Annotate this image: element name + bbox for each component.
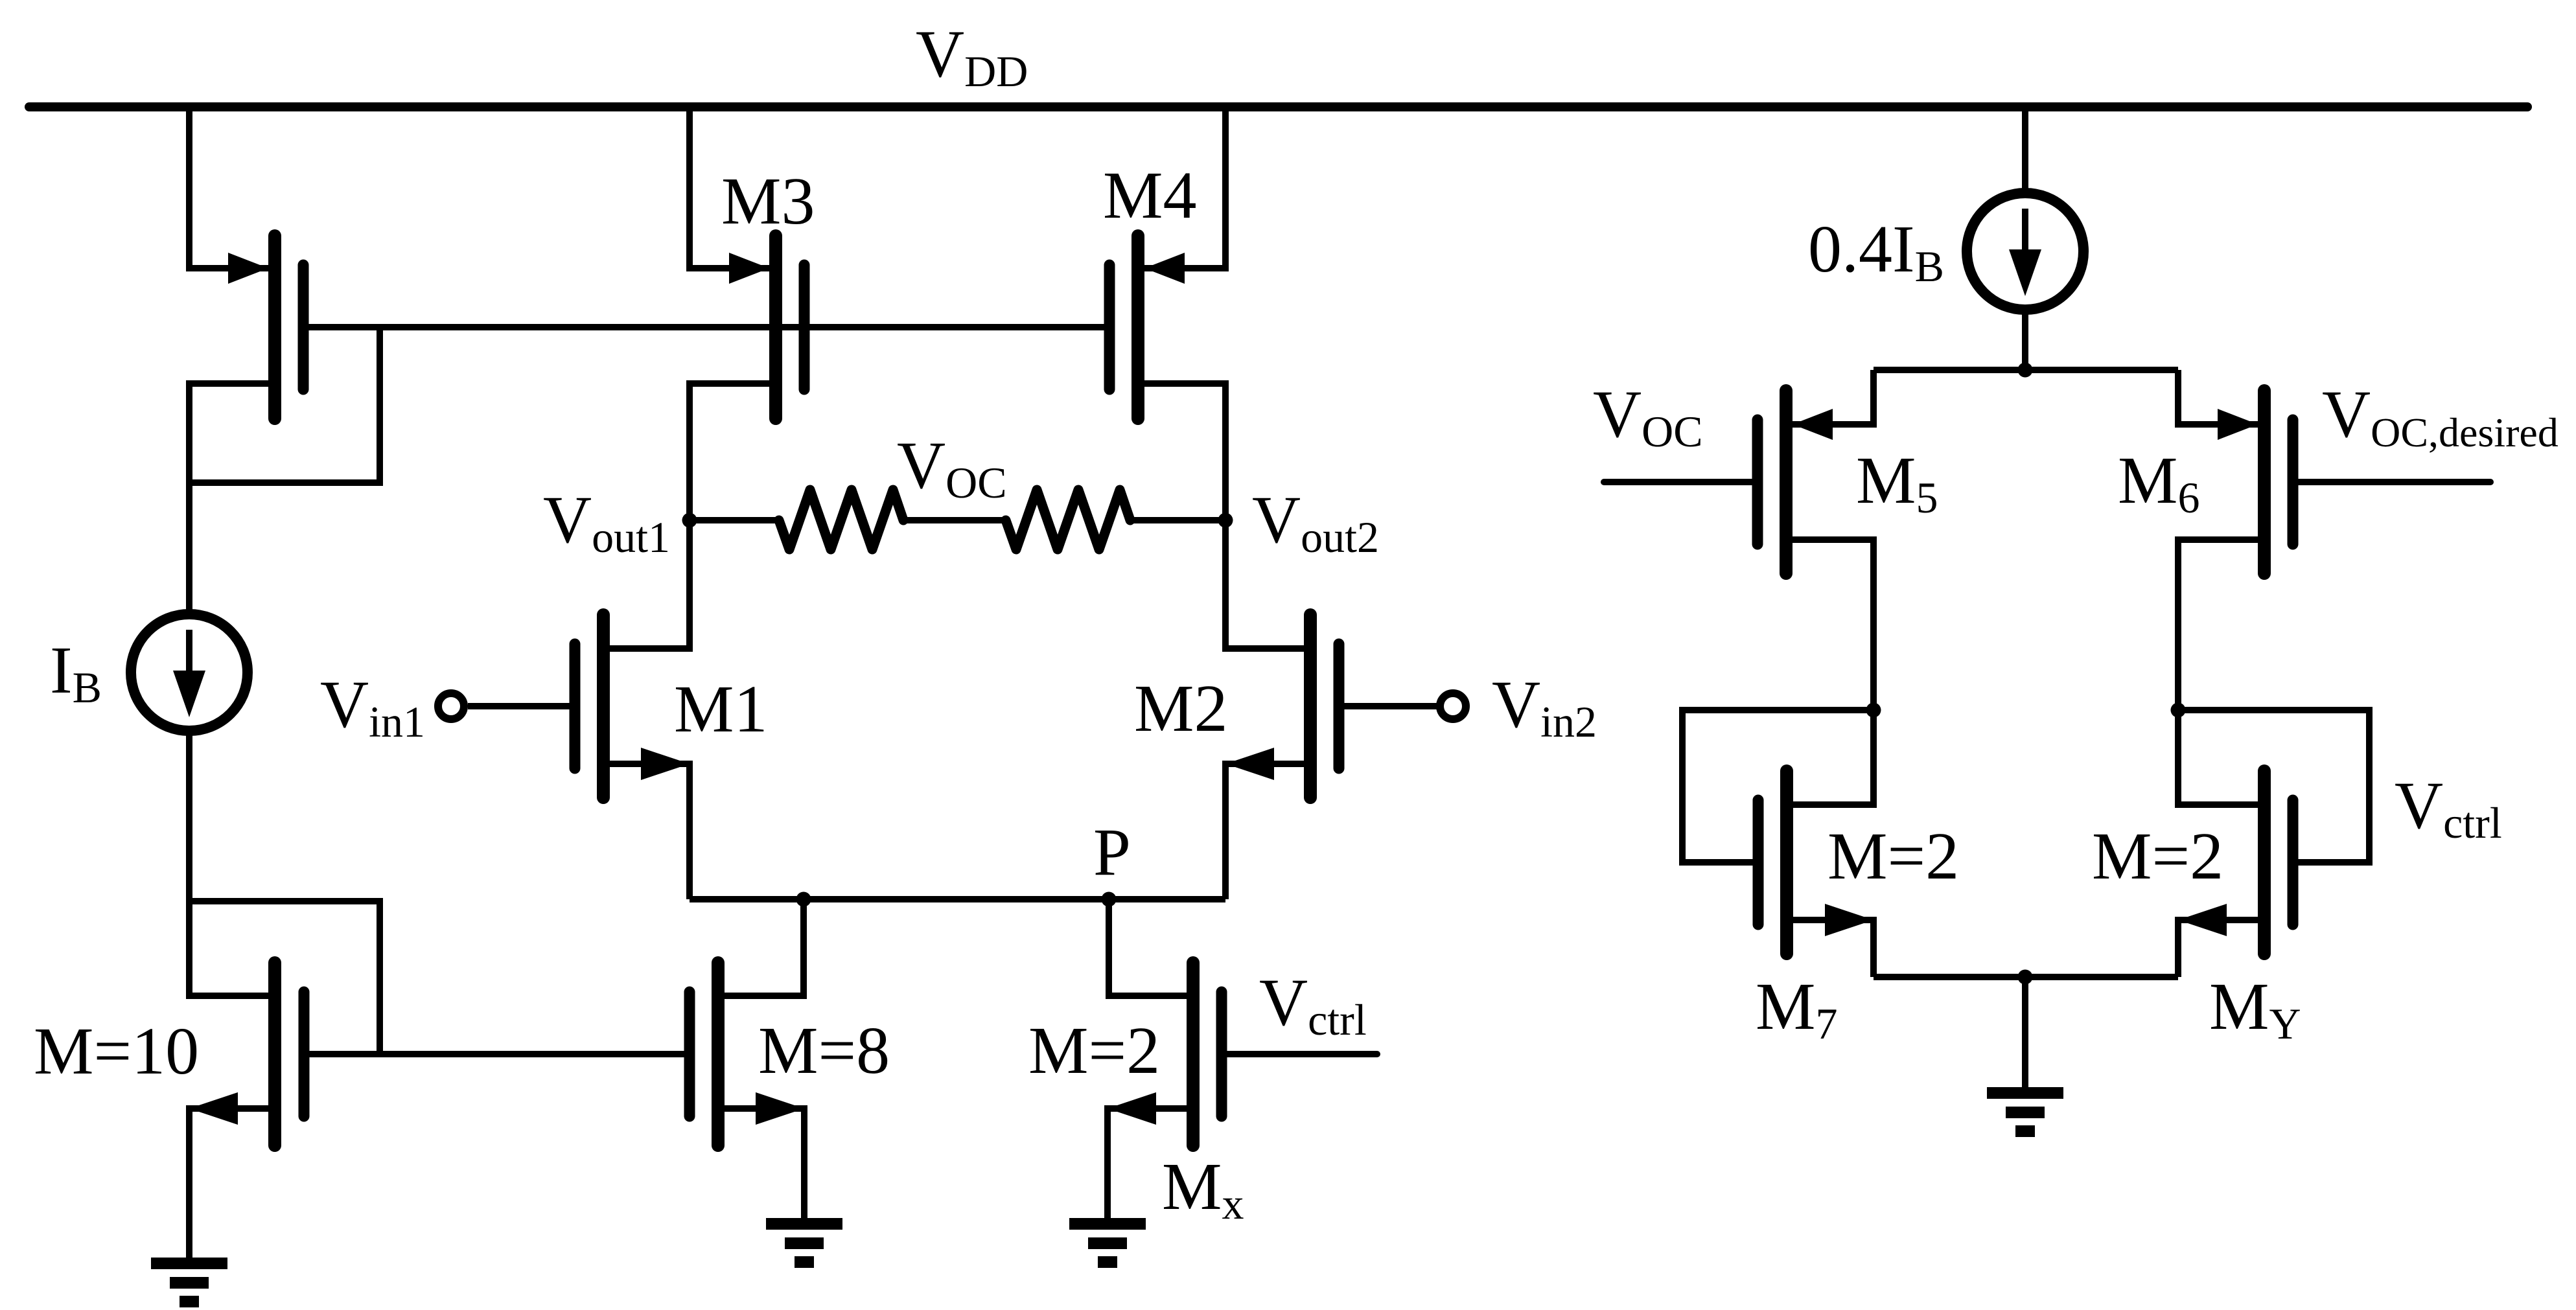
transistor M2 channel bar [1304,615,1317,798]
M6 source arrow [2218,409,2258,440]
wire VDD tap to M4 source [1138,102,1225,268]
ground under M10 [151,1263,227,1302]
bias PMOS source arrow [228,253,268,284]
wire mid rail to M5 source [1786,370,1874,424]
transistor M8 channel bar [712,963,725,1145]
transistor M3 channel bar [769,236,782,419]
node mid rail junction dot [2018,363,2033,378]
node Vin1 input terminal circle [438,693,464,719]
wire M7 diode loop [1682,710,1874,862]
transistor Mx channel bar [1187,963,1200,1145]
wire M4 drain to Vout2 and M2 drain [1138,384,1304,649]
svg-text:M4: M4 [1103,158,1196,233]
wire M2 source to tail [1225,764,1304,899]
svg-text:M=2: M=2 [1028,1013,1160,1088]
wire M5 drain down to M7 [1786,540,1874,805]
wire Vin2 to M2 gate [1339,703,1440,709]
wire VDD tap to M3 source [690,102,776,268]
wire MY diode loop [2178,710,2369,862]
wire M6 drain down to MY [2178,540,2264,805]
M3 source arrow [729,253,769,284]
M1 source arrow [641,748,690,780]
node M6 drain junction dot [2171,703,2186,718]
svg-text:M1: M1 [674,672,767,746]
transistor M7 gate bar [1753,800,1764,925]
wire Mx source to ground [1108,1109,1193,1218]
transistor M6 gate bar [2288,420,2299,544]
resistor R1 [779,490,903,549]
transistor M7 channel bar [1780,771,1793,954]
wire bottom rail [1874,974,2178,980]
M7 source arrow [1825,904,1874,936]
ground under M8 [766,1224,842,1262]
wire between resistors [901,517,1008,523]
wire Vout1 to resistor R1 [690,517,782,523]
current source 0.4IB arrow [2022,209,2028,253]
wire resistor R2 to Vout2 [1128,517,1225,523]
M10 source arrow [189,1092,238,1125]
wire tail to M8 drain [718,899,804,996]
M8 source arrow [756,1092,804,1125]
wire tail rail [690,896,1225,902]
node M5 drain junction dot [1866,703,1881,718]
wire VDD tap to 0.4IB [2022,102,2028,370]
wire MY source to bottom rail [2178,920,2264,977]
svg-text:M=10: M=10 [34,1014,199,1088]
MY source arrow [2178,904,2227,936]
node Vout2 junction dot [1218,513,1233,528]
current source 0.4IB circle [1967,193,2083,310]
transistor M1 channel bar [597,615,610,798]
node tail junction dot at M8 drain [796,892,811,907]
wire Vin1 to M1 gate [468,703,575,709]
transistor M5 gate bar [1752,420,1763,544]
transistor MY channel bar [2258,771,2271,954]
wire MB1 diode loop gate to drain [189,327,380,483]
wire M3 drain to Vout1 and M1 drain [603,384,776,649]
transistor M10 channel bar [268,963,281,1145]
wire M10 source to ground [189,1109,275,1258]
transistor M4 gate bar [1104,265,1115,389]
transistor M10 gate bar [299,992,310,1116]
node Vin2 input terminal circle [1440,693,1466,719]
wire M10 diode loop [189,901,380,1054]
svg-text:M=2: M=2 [1828,819,1959,893]
node bottom rail junction dot [2018,970,2033,985]
transistor M5 channel bar [1780,391,1793,573]
VDD rail [29,102,2527,111]
current source IB arrow [186,630,192,674]
wire Mx gate to Vctrl [1222,1051,1377,1057]
transistor M2 gate bar [1334,644,1345,768]
node Vout1 junction dot [682,513,697,528]
wire IB to M10 drain [189,731,275,996]
wire VOC to M5 gate [1604,479,1758,485]
svg-text:M3: M3 [721,164,815,238]
wire PMOS mirror gate line to M3 M4 gates [303,324,1109,330]
wire NMOS mirror gate line M10 to M8 [304,1051,690,1057]
M2 source arrow [1225,748,1274,780]
svg-text:M=8: M=8 [758,1013,890,1088]
transistor M1 gate bar [570,644,581,768]
M5 source arrow [1793,409,1833,440]
svg-text:M2: M2 [1134,671,1227,746]
transistor MY gate bar [2288,800,2299,925]
transistor M8 gate bar [684,992,695,1116]
node P junction dot [1102,892,1117,907]
wire MB1 drain to IB [189,384,275,613]
Mx source arrow [1108,1092,1156,1125]
transistor M6 channel bar [2258,391,2271,573]
M4 source arrow [1144,253,1185,284]
ground under Mx [1069,1224,1146,1262]
wire P to Mx drain [1109,899,1193,996]
transistor MB1 (bias PMOS, diode-connected) channel bar [268,236,281,419]
wire M6 gate to VOC desired [2293,479,2490,485]
wire ground stem [2022,977,2028,1087]
wire M8 source to ground [718,1109,804,1218]
wire mid rail below 0.4IB [1874,367,2178,373]
wire mid rail to M6 source [2178,370,2264,424]
transistor M3 gate bar [799,265,810,389]
svg-text:M=2: M=2 [2092,819,2223,893]
transistor M4 channel bar [1131,236,1144,419]
wire M1 source to tail [603,764,690,899]
svg-text:P: P [1093,815,1131,890]
transistor Mx gate bar [1216,992,1227,1116]
current source IB circle [131,614,248,731]
transistor MB1 gate bar [298,265,309,389]
wire VDD tap to bias PMOS source [189,102,275,268]
ground right circuit [1987,1093,2063,1131]
resistor R2 [1006,490,1130,549]
wire M7 source to bottom rail [1787,920,1874,977]
